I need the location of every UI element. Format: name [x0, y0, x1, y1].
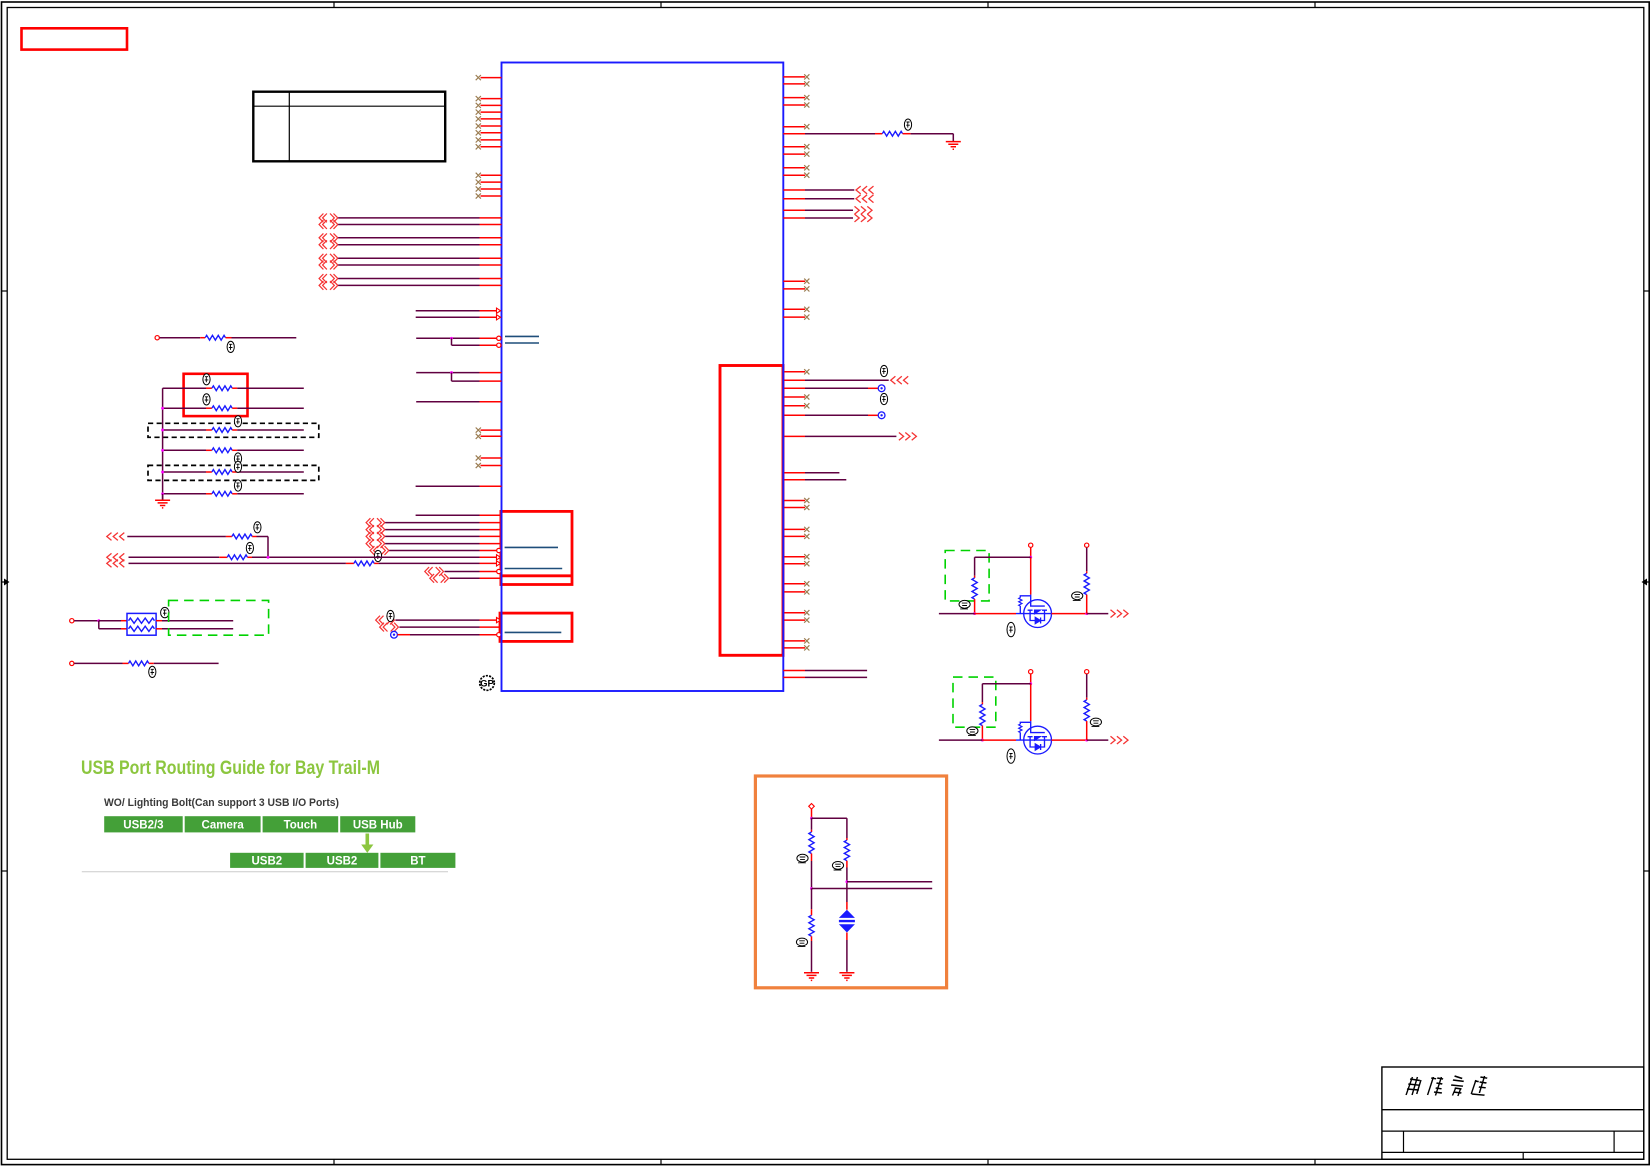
reference bubble R (lower right) — [1090, 718, 1101, 726]
reference bubble RA — [254, 522, 261, 533]
reference bubble R5 — [234, 453, 241, 464]
bottom right wires — [783, 670, 805, 672]
svg-text:USB Port Routing Guide for Bay: USB Port Routing Guide for Bay Trail-M — [81, 758, 380, 779]
pull-up resistor row (top) — [155, 336, 159, 340]
sense output wires — [847, 881, 932, 883]
ground (strap chain) — [162, 494, 164, 501]
strap common vertical wire — [162, 388, 164, 500]
off-page connector wires group C — [319, 254, 338, 263]
U1 internal red highlight box 1 (USB2 pins) — [501, 511, 572, 584]
series resistor row (bottom-left) — [70, 661, 74, 665]
power net diamond pin — [809, 804, 815, 810]
off-page output pair (left chevrons) — [783, 189, 805, 191]
off-page connector wire with arrow — [376, 616, 395, 625]
USB2 data bundle off-page connectors — [366, 518, 385, 527]
svg-text:USB Hub: USB Hub — [353, 820, 403, 832]
clock wire with circled-dot 2 — [783, 414, 805, 416]
off-page connector wires group B — [319, 233, 338, 242]
top branch wire — [982, 683, 1030, 685]
ground (TVS) — [839, 973, 854, 981]
strap resistor row 6 — [163, 493, 206, 495]
MOSFET Q (load switch) — [1016, 595, 1052, 628]
border zone ticks bottom — [333, 1159, 335, 1164]
main switched wire — [939, 739, 983, 741]
gate pulldown resistor — [974, 557, 976, 576]
reference bubble RD1 — [797, 854, 808, 862]
output side of switch — [1052, 739, 1087, 741]
reference bubble R6 — [234, 461, 241, 472]
svg-text:USB2: USB2 — [327, 855, 358, 867]
routing table row 1 — [104, 816, 183, 832]
resistor pack output wires — [156, 620, 162, 622]
border zone ticks left — [2, 290, 8, 292]
clock wire with circled-dot source — [391, 631, 398, 638]
left leg resistor RD1 — [811, 818, 813, 830]
wire to off-page (right chevrons) — [783, 435, 805, 437]
U1 right edge overlay — [782, 364, 784, 657]
reference bubble RD2 — [796, 938, 807, 946]
reference bubble R — [959, 600, 970, 608]
USB2 bundle wire with open circle pin — [370, 546, 389, 555]
revision table — [253, 92, 445, 162]
U1 internal red highlight box 2 (USB3 pins) — [500, 613, 572, 641]
reference bubble — [880, 393, 887, 404]
reference bubble R (upper right) — [1072, 592, 1083, 600]
reference bubble — [387, 610, 394, 621]
dashed option box 1 — [148, 423, 319, 437]
U1 right no-connect pins — [783, 76, 805, 78]
routing table row 2 — [230, 853, 304, 868]
reference bubble R9 — [904, 119, 911, 130]
resistor pack RN1 — [127, 613, 156, 635]
reference bubble RB — [246, 542, 253, 553]
border zone ticks top — [333, 2, 335, 8]
top branch wire — [975, 556, 1031, 558]
svg-text:BT: BT — [410, 855, 425, 867]
right leg resistor RD3 — [846, 838, 848, 840]
branch wire to right leg — [812, 817, 847, 819]
svg-text:Touch: Touch — [284, 820, 318, 832]
strap resistor row 5 — [163, 471, 206, 473]
reference bubble R8 — [149, 666, 156, 677]
resistor R1 — [205, 335, 225, 340]
single input wire to USB block — [416, 514, 480, 516]
svg-text:WO/ Lighting Bolt(Can support: WO/ Lighting Bolt(Can support 3 USB I/O … — [104, 797, 339, 809]
ground (top right) — [946, 142, 961, 150]
reference bubble R7 — [234, 480, 241, 491]
U1 left edge overlay — [501, 510, 503, 586]
title block frame — [1382, 1067, 1644, 1159]
gate rail vertical — [1030, 548, 1032, 558]
reference bubble RN1 — [161, 607, 169, 617]
dashed option box 2 — [148, 465, 319, 480]
strap resistor row 1 — [163, 387, 206, 389]
MOSFET Q (load switch) — [1016, 721, 1052, 754]
off-page connector wires group A — [319, 214, 338, 223]
power rail open pin — [1029, 670, 1033, 674]
reference bubble Q — [1007, 622, 1015, 636]
resistor RA — [232, 534, 252, 539]
off-page connector wire — [380, 623, 399, 632]
clock wire with circled-dot — [783, 387, 805, 389]
reference bubble R3 — [203, 394, 210, 405]
off-page connector wires group D — [319, 274, 338, 283]
reference bubble R1 — [227, 341, 234, 352]
border mid-left arrow tick — [2, 581, 8, 583]
source wire with junction — [70, 619, 74, 623]
single input wire — [416, 401, 479, 403]
reference bubble R — [967, 727, 978, 735]
U1 GP symbol — [480, 676, 495, 691]
pulldown resistor to ground (top right) — [783, 133, 805, 135]
reference bubble R4 — [234, 416, 241, 427]
border mid-right arrow tick — [1644, 581, 1649, 583]
green option dashed box — [169, 600, 269, 635]
svg-text:GP: GP — [480, 679, 494, 690]
company name glyphs (Wistron) — [1406, 1076, 1488, 1096]
svg-text:Camera: Camera — [202, 820, 245, 832]
off-page connector wire (circle pin) — [425, 567, 444, 576]
power rail open pin — [1029, 543, 1033, 547]
off-page connector row C — [107, 560, 125, 568]
ground (left leg) — [804, 973, 819, 981]
wire to off-page (left chevrons) — [783, 379, 805, 381]
off-page output pair (right chevrons) — [783, 209, 805, 211]
svg-text:USB2: USB2 — [252, 855, 283, 867]
strap resistor row 2 — [163, 407, 206, 409]
SoC U1 (Bay Trail-M) body — [502, 63, 784, 692]
reference bubble Q — [1007, 749, 1015, 763]
left leg resistor RD2 — [811, 889, 813, 910]
green option dashed box — [953, 677, 996, 727]
resistor RC — [354, 561, 374, 566]
orange highlight box — [755, 776, 946, 988]
resistor RB — [227, 555, 247, 560]
red highlight box (strap resistors) — [184, 374, 248, 416]
reference bubble — [880, 365, 887, 376]
red annotation box (top-left) — [22, 28, 128, 49]
off-page connector wire — [430, 574, 449, 583]
reference bubble — [374, 550, 381, 561]
gate pulldown resistor — [981, 684, 983, 703]
wire pair with input arrows — [416, 310, 480, 312]
divider chain top wire — [811, 809, 813, 818]
reference bubble R2 — [203, 374, 210, 385]
single input wire — [416, 485, 480, 487]
gate rail vertical — [1030, 674, 1032, 684]
border zone ticks right — [1644, 290, 1649, 292]
U1 internal bus underline marks — [505, 335, 539, 337]
strap resistor row 4 — [163, 449, 206, 451]
U1 left no-connect pins — [481, 77, 502, 79]
wire corner down to row B — [267, 537, 269, 558]
TVS diode D1 (bidirectional) — [846, 902, 848, 910]
separator line — [82, 871, 448, 873]
flow arrow — [365, 834, 369, 846]
off-page connector row B — [107, 553, 125, 561]
stub net wire — [783, 472, 805, 474]
off-page connector row A — [107, 533, 125, 541]
svg-text:USB2/3: USB2/3 — [123, 820, 163, 832]
output pull resistor — [1085, 543, 1089, 547]
reference bubble RD3 — [832, 862, 843, 870]
green option dashed box — [945, 551, 989, 601]
stub net wire — [783, 479, 805, 481]
strap resistor row 3 — [163, 429, 206, 431]
strap junction dots — [161, 407, 164, 410]
wire with branch to two pins (open circles) — [416, 337, 479, 339]
output side of switch — [1052, 613, 1087, 615]
off-page output chevrons — [1111, 610, 1129, 618]
wire with branch to two pins — [416, 372, 479, 374]
off-page output chevrons — [1111, 736, 1129, 744]
U1 internal red highlight box 3 (right-side port pins) — [720, 366, 783, 656]
main switched wire — [939, 613, 975, 615]
output pull resistor — [1085, 670, 1089, 674]
